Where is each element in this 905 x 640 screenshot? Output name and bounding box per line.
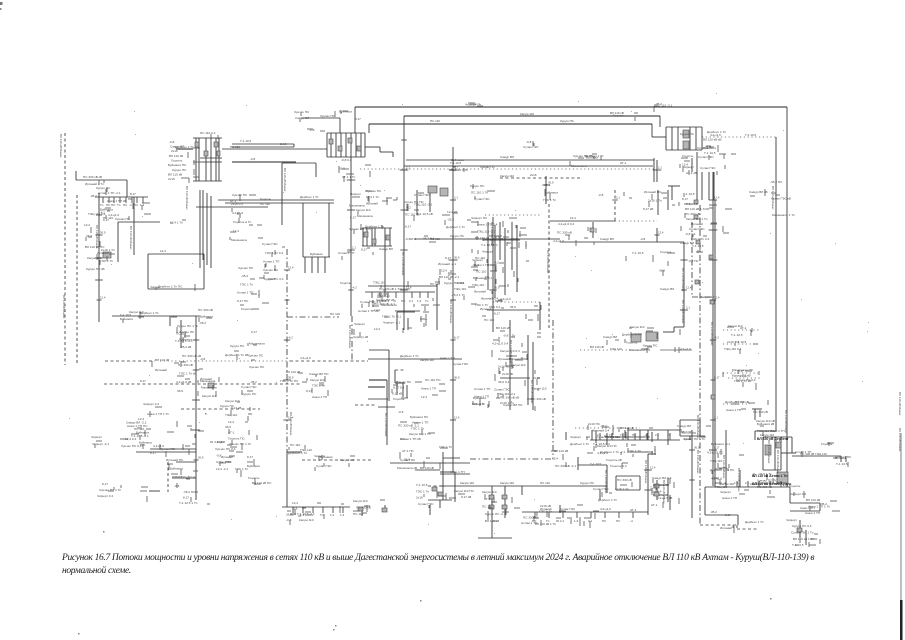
svg-text:Куруш ПС: Куруш ПС <box>680 132 695 136</box>
svg-text:Т-1 10,5: Т-1 10,5 <box>683 192 695 196</box>
svg-text:ПС 110: ПС 110 <box>353 512 364 516</box>
svg-text:ВЛ 110 кВ Ахтам-Куруш: ВЛ 110 кВ Ахтам-Куруш <box>752 482 792 486</box>
svg-text:Гоцатль 1 Тп: Гоцатль 1 Тп <box>233 220 252 224</box>
svg-text:ВЛ 110 кВ: ВЛ 110 кВ <box>590 345 604 349</box>
svg-text:12,4: 12,4 <box>714 296 720 300</box>
svg-text:Махачкала: Махачкала <box>231 238 247 242</box>
svg-text:Т-1 10,5: Т-1 10,5 <box>735 340 747 344</box>
svg-text:ВЛ 110 кВ Махач: ВЛ 110 кВ Махач <box>283 168 287 192</box>
svg-text:12,4: 12,4 <box>374 308 380 312</box>
svg-text:ВЛ 110 кВ Махач: ВЛ 110 кВ Махач <box>546 250 550 274</box>
svg-text:4,2+j1,6: 4,2+j1,6 <box>500 297 511 301</box>
svg-text:Дербент 1 Тп: Дербент 1 Тп <box>745 520 764 524</box>
svg-text:Т-1 10,5: Т-1 10,5 <box>704 151 716 155</box>
svg-text:Гоцатль: Гоцатль <box>821 442 833 446</box>
svg-text:Касум 110 1 Тп: Касум 110 1 Тп <box>409 432 431 436</box>
svg-text:Самур ВЛ ПС: Самур ВЛ ПС <box>309 372 329 376</box>
svg-text:-0,8: -0,8 <box>526 140 532 144</box>
svg-text:-35,2 ПС: -35,2 ПС <box>183 490 196 494</box>
svg-text:ВЛ 110 кВ Махач: ВЛ 110 кВ Махач <box>95 225 99 249</box>
svg-text:36,9: 36,9 <box>288 376 294 380</box>
svg-text:ВЛ 110 кВ Махач: ВЛ 110 кВ Махач <box>681 300 685 324</box>
svg-text:-0,8: -0,8 <box>640 237 646 241</box>
svg-text:8,17: 8,17 <box>140 379 146 383</box>
svg-text:Гоцатль: Гоцатль <box>248 476 260 480</box>
svg-text:12,4: 12,4 <box>228 420 234 424</box>
svg-text:Касум 110: Касум 110 <box>353 499 368 503</box>
svg-text:8,17: 8,17 <box>183 496 189 500</box>
svg-text:Анжи 1 ТП: Анжи 1 ТП <box>450 470 465 474</box>
svg-text:ВЛ 110 кВ Махач: ВЛ 110 кВ Махач <box>767 440 771 464</box>
svg-text:Гоцатль кВ: Гоцатль кВ <box>606 458 622 462</box>
svg-text:-0,8 0,4: -0,8 0,4 <box>651 490 662 494</box>
svg-text:1,3: 1,3 <box>300 513 305 517</box>
svg-text:Хунзах ПС: Хунзах ПС <box>248 353 264 357</box>
svg-text:Чирюрт: Чирюрт <box>150 285 161 289</box>
svg-text:2x16: 2x16 <box>740 374 747 378</box>
svg-text:ПС 110 кВ: ПС 110 кВ <box>405 212 420 216</box>
svg-text:Гоцатль: Гоцатль <box>682 154 694 158</box>
svg-text:АТ-1: АТ-1 <box>740 326 747 330</box>
svg-text:12,4: 12,4 <box>454 416 460 420</box>
svg-text:Буйнакск: Буйнакск <box>320 455 333 459</box>
svg-text:4,2+j1,6 0,4: 4,2+j1,6 0,4 <box>558 222 575 226</box>
svg-text:-4: -4 <box>393 299 396 303</box>
svg-text:Сулак ГЭС: Сулак ГЭС <box>418 502 434 506</box>
svg-text:Махачкала: Махачкала <box>357 214 373 218</box>
svg-text:Сулак ГЭС: Сулак ГЭС <box>523 145 539 149</box>
svg-text:Ирганай: Ирганай <box>155 368 167 372</box>
svg-text:Т-1 10,5: Т-1 10,5 <box>745 133 757 137</box>
svg-text:ГЭС 1 Тп: ГЭС 1 Тп <box>240 282 253 286</box>
svg-text:-4,2: -4,2 <box>100 211 105 215</box>
svg-text:2,1: 2,1 <box>745 481 750 485</box>
svg-text:Самур ВЛ: Самур ВЛ <box>295 116 309 120</box>
svg-text:2,1: 2,1 <box>352 246 356 250</box>
svg-text:36,9: 36,9 <box>177 389 183 393</box>
svg-text:ВЛ 110 кВ: ВЛ 110 кВ <box>620 426 634 430</box>
svg-text:АТ-1 кВ: АТ-1 кВ <box>686 171 697 175</box>
svg-text:ПС 110: ПС 110 <box>290 443 301 447</box>
svg-text:2,1: 2,1 <box>597 433 602 437</box>
svg-text:Т-1 10,5 1 Тп: Т-1 10,5 1 Тп <box>179 501 198 505</box>
svg-text:ВЛ 110 кВ: ВЛ 110 кВ <box>610 111 624 115</box>
svg-text:-35,2: -35,2 <box>199 321 206 325</box>
svg-text:АТ-1: АТ-1 <box>230 199 237 203</box>
svg-text:-4,2: -4,2 <box>406 206 411 210</box>
svg-text:ВЛ 110 кВ Махач: ВЛ 110 кВ Махач <box>722 455 726 479</box>
svg-text:Касум 110: Касум 110 <box>500 174 514 178</box>
svg-text:-0,8: -0,8 <box>250 157 256 161</box>
svg-text:12,4: 12,4 <box>421 395 427 399</box>
svg-text:ГЭС 1 Тп 0,4: ГЭС 1 Тп 0,4 <box>265 251 283 255</box>
svg-text:Гоцатль: Гоцатль <box>470 102 481 106</box>
svg-text:Ирганай -2,1: Ирганай -2,1 <box>438 262 456 266</box>
svg-text:Буйнакск: Буйнакск <box>120 317 134 321</box>
svg-text:1,3: 1,3 <box>330 513 335 517</box>
svg-text:ВЛ 110 кВ: ВЛ 110 кВ <box>496 326 510 330</box>
svg-text:8,17: 8,17 <box>454 336 460 340</box>
svg-text:2,1: 2,1 <box>588 519 593 523</box>
svg-text:ВЛ 110 кВ Махач: ВЛ 110 кВ Махач <box>776 450 780 474</box>
svg-text:Ирганай: Ирганай <box>366 202 378 206</box>
svg-text:-4: -4 <box>644 433 647 437</box>
svg-text:ВЛ 110 кВ Махач: ВЛ 110 кВ Махач <box>401 252 405 276</box>
svg-text:ВЛ 110 кВ Махач: ВЛ 110 кВ Махач <box>384 413 388 437</box>
svg-text:8,17: 8,17 <box>682 197 688 201</box>
svg-text:-35,2: -35,2 <box>600 424 607 428</box>
svg-text:Самур ВЛ 0,4: Самур ВЛ 0,4 <box>652 476 672 480</box>
svg-text:36,9: 36,9 <box>454 376 460 380</box>
svg-text:36,9: 36,9 <box>494 286 500 290</box>
svg-text:ПС 330 кВ: ПС 330 кВ <box>198 308 213 312</box>
svg-text:ГЭС 1 Тп: ГЭС 1 Тп <box>472 402 485 406</box>
svg-text:Ирганай 0,4: Ирганай 0,4 <box>481 296 498 300</box>
svg-text:ВЛ 110 кВ: ВЛ 110 кВ <box>420 466 434 470</box>
svg-text:ВЛ 110 кВ Ахтам 1 Тп: ВЛ 110 кВ Ахтам 1 Тп <box>752 474 787 478</box>
svg-text:Тп: Тп <box>100 203 104 207</box>
svg-text:8,17 ПС: 8,17 ПС <box>237 299 249 303</box>
svg-text:Сулак ГЭС: Сулак ГЭС <box>241 385 257 389</box>
svg-text:12,4: 12,4 <box>84 223 90 227</box>
svg-text:Ахтам 1 ТП: Ахтам 1 ТП <box>237 291 253 295</box>
svg-text:Ахтам 1 ТП: Ахтам 1 ТП <box>338 251 354 255</box>
svg-text:ВЛ 110 кВ Махач: ВЛ 110 кВ Махач <box>696 450 700 474</box>
svg-text:12,4: 12,4 <box>406 286 412 290</box>
svg-text:АТ-1: АТ-1 <box>410 237 417 241</box>
svg-text:Ирганай ПС: Ирганай ПС <box>166 458 184 462</box>
svg-text:2x16: 2x16 <box>684 437 691 441</box>
svg-text:Самур ВЛ: Самур ВЛ <box>680 241 694 245</box>
svg-text:8,17: 8,17 <box>738 369 744 373</box>
svg-text:8,17: 8,17 <box>247 455 253 459</box>
svg-text:-35,2 ПС: -35,2 ПС <box>770 180 783 184</box>
svg-text:ВЛ 110 кВ Махач: ВЛ 110 кВ Махач <box>737 468 741 492</box>
svg-text:Сулак ГЭС: Сулак ГЭС <box>453 362 469 366</box>
svg-text:ВЛ 110 кВ Махач: ВЛ 110 кВ Махач <box>898 392 902 416</box>
svg-text:Т-1 10,5: Т-1 10,5 <box>120 313 132 317</box>
svg-text:Касум 110: Касум 110 <box>310 378 325 382</box>
svg-text:Сулак ГЭС 1 Тп: Сулак ГЭС 1 Тп <box>791 531 814 535</box>
svg-text:Чирюрт: Чирюрт <box>472 258 483 262</box>
svg-text:Дербент 1 Тп ПС: Дербент 1 Тп ПС <box>158 285 183 289</box>
svg-text:12,4: 12,4 <box>288 416 294 420</box>
svg-text:2x16: 2x16 <box>280 142 287 146</box>
svg-text:ПС 330 кВ кВ: ПС 330 кВ кВ <box>182 354 201 358</box>
svg-text:ПС 110 0,4: ПС 110 0,4 <box>200 131 216 135</box>
svg-text:ПС 110: ПС 110 <box>540 481 550 485</box>
svg-text:Тп: Тп <box>620 433 624 437</box>
svg-text:Касум 110: Касум 110 <box>482 490 497 494</box>
svg-text:ВЛ 110 кВ Махач: ВЛ 110 кВ Махач <box>530 380 534 404</box>
svg-text:ТЭЦ 110: ТЭЦ 110 <box>610 347 622 351</box>
svg-text:4,2+j1,6: 4,2+j1,6 <box>710 133 721 137</box>
svg-text:Т-1 10,5: Т-1 10,5 <box>836 462 848 466</box>
svg-text:Буйнакск ПС: Буйнакск ПС <box>410 415 429 419</box>
svg-text:8,17: 8,17 <box>445 256 451 260</box>
svg-text:Сулак ГЭС: Сулак ГЭС <box>474 197 490 201</box>
svg-text:Касум 110: Касум 110 <box>700 295 714 299</box>
svg-text:ПС 330 кВ: ПС 330 кВ <box>800 452 814 456</box>
svg-text:8,17: 8,17 <box>405 225 411 229</box>
svg-text:Дербент 1 Тп: Дербент 1 Тп <box>140 311 159 315</box>
svg-text:Ахтам 1 ТП -2,1: Ахтам 1 ТП -2,1 <box>98 191 121 195</box>
svg-text:-0,8 0,4: -0,8 0,4 <box>377 292 388 296</box>
svg-text:ПС 110: ПС 110 <box>430 237 440 241</box>
svg-text:Куруш ПС ПС: Куруш ПС ПС <box>404 200 424 204</box>
svg-text:Т-1 10,5 ПС: Т-1 10,5 ПС <box>481 243 499 247</box>
svg-text:Касум 110: Касум 110 <box>520 112 534 116</box>
svg-text:ПС 330 кВ 1 Тп: ПС 330 кВ 1 Тп <box>379 287 401 291</box>
svg-text:Самур ВЛ: Самур ВЛ <box>500 155 514 159</box>
svg-text:Касум 110: Касум 110 <box>420 358 434 362</box>
svg-text:36,9: 36,9 <box>225 425 231 429</box>
svg-text:2x16: 2x16 <box>168 177 175 181</box>
svg-text:-0,8: -0,8 <box>598 193 604 197</box>
svg-text:-35,2 1 Тп: -35,2 1 Тп <box>451 293 465 297</box>
svg-text:12,4: 12,4 <box>288 266 294 270</box>
svg-text:Махачкала: Махачкала <box>349 204 365 208</box>
svg-text:Анжи 1 ТП: Анжи 1 ТП <box>805 511 820 515</box>
svg-text:Самур ВЛ: Самур ВЛ <box>603 335 617 339</box>
svg-text:-35,2: -35,2 <box>710 510 717 514</box>
svg-text:ПС 110 ПС: ПС 110 ПС <box>425 378 441 382</box>
svg-text:ТЭЦ 110: ТЭЦ 110 <box>454 287 466 291</box>
svg-text:1,3: 1,3 <box>417 299 422 303</box>
svg-text:4,2+j1,6: 4,2+j1,6 <box>680 347 691 351</box>
svg-text:Самур ВЛ: Самур ВЛ <box>660 287 674 291</box>
svg-text:12,4: 12,4 <box>374 327 380 331</box>
svg-text:36,9: 36,9 <box>694 446 700 450</box>
svg-text:ВЛ 110 кВ Махач: ВЛ 110 кВ Махач <box>490 222 494 246</box>
svg-text:Чирюрт: Чирюрт <box>354 322 365 326</box>
svg-text:1,3: 1,3 <box>369 299 374 303</box>
svg-text:Анжи 1 ТП: Анжи 1 ТП <box>440 356 455 360</box>
svg-text:Гоцатль: Гоцатль <box>241 307 253 311</box>
svg-text:-35,2: -35,2 <box>90 194 97 198</box>
svg-text:Самур ВЛ: Самур ВЛ <box>379 247 393 251</box>
svg-text:ВЛ 110 кВ кВ: ВЛ 110 кВ кВ <box>703 138 721 142</box>
svg-text:8,17: 8,17 <box>251 330 257 334</box>
svg-text:36,9: 36,9 <box>339 167 345 171</box>
svg-text:Т-1 10,5: Т-1 10,5 <box>240 139 252 143</box>
svg-text:Хунзах ПС: Хунзах ПС <box>249 365 265 369</box>
svg-text:-35,2: -35,2 <box>250 380 257 384</box>
svg-text:ПС 110: ПС 110 <box>484 318 495 322</box>
svg-text:ВЛ 110 кВ Махач: ВЛ 110 кВ Махач <box>59 134 63 158</box>
svg-text:ВЛ 110 кВ Махач: ВЛ 110 кВ Махач <box>348 325 352 349</box>
svg-text:8,17: 8,17 <box>102 482 108 486</box>
svg-text:ПС 330 кВ: ПС 330 кВ <box>178 363 193 367</box>
svg-text:12,4: 12,4 <box>441 269 447 273</box>
svg-text:Куруш ПС: Куруш ПС <box>560 119 575 123</box>
svg-text:ТЭЦ 110: ТЭЦ 110 <box>300 448 312 452</box>
svg-text:2,1: 2,1 <box>454 196 458 200</box>
svg-text:Куруш ПС: Куруш ПС <box>230 344 245 348</box>
svg-text:36,9: 36,9 <box>659 269 665 273</box>
svg-text:-0,8 0,4: -0,8 0,4 <box>685 232 696 236</box>
svg-text:Махачкала: Махачкала <box>381 303 397 307</box>
svg-text:Сулак ГЭС: Сулак ГЭС <box>414 193 430 197</box>
svg-text:-0,8 ПС: -0,8 ПС <box>688 259 699 263</box>
svg-text:-4: -4 <box>129 203 132 207</box>
svg-text:-4,2: -4,2 <box>352 286 357 290</box>
svg-text:4,2+j1,6 0,4: 4,2+j1,6 0,4 <box>492 341 509 345</box>
svg-text:-0,8 0,4: -0,8 0,4 <box>341 158 352 162</box>
svg-text:Чирюрт: Чирюрт <box>720 490 731 494</box>
svg-text:ПС 110 1 Тп: ПС 110 1 Тп <box>471 191 488 195</box>
svg-text:ВЛ 110 кВ Махач: ВЛ 110 кВ Махач <box>129 226 133 250</box>
svg-text:ВЛ 110 кВ Махач: ВЛ 110 кВ Махач <box>696 415 700 439</box>
svg-text:Куруш ПС: Куруш ПС <box>242 392 257 396</box>
svg-text:Дербент 1 Тп: Дербент 1 Тп <box>570 442 589 446</box>
svg-text:2,1: 2,1 <box>616 196 620 200</box>
svg-text:-4: -4 <box>630 519 633 523</box>
svg-text:8,17: 8,17 <box>725 513 731 517</box>
svg-text:Анжи 1 ТП: Анжи 1 ТП <box>421 387 436 391</box>
svg-text:ВЛ 110 кВ Махач: ВЛ 110 кВ Махач <box>710 322 714 346</box>
svg-text:Чирюрт: Чирюрт <box>350 192 361 196</box>
svg-text:ТЭЦ 110 -2,1: ТЭЦ 110 -2,1 <box>497 392 516 396</box>
svg-text:Дербент 1 Тп: Дербент 1 Тп <box>622 333 641 337</box>
svg-text:2x16 1 Тп: 2x16 1 Тп <box>648 199 662 203</box>
svg-text:Чирюрт: Чирюрт <box>786 518 797 522</box>
svg-text:36,9 0,4: 36,9 0,4 <box>498 380 509 384</box>
svg-text:ГЭС 1 Тп -2,1: ГЭС 1 Тп -2,1 <box>382 314 401 318</box>
svg-text:Касум 110: Касум 110 <box>500 481 514 485</box>
svg-text:ГЭС 1 Тп: ГЭС 1 Тп <box>312 384 325 388</box>
svg-text:12,4: 12,4 <box>650 466 656 470</box>
svg-text:Касум 110: Касум 110 <box>299 518 314 522</box>
svg-text:Сулак ГЭС: Сулак ГЭС <box>560 507 576 511</box>
svg-text:-35,2: -35,2 <box>447 218 454 222</box>
svg-text:Хунзах ПС: Хунзах ПС <box>396 380 412 384</box>
svg-text:2,1: 2,1 <box>409 299 414 303</box>
svg-text:АТ-1 ПС: АТ-1 ПС <box>402 449 415 453</box>
svg-text:Т-1 10,5: Т-1 10,5 <box>590 462 602 466</box>
svg-text:2,1: 2,1 <box>686 306 690 310</box>
svg-text:Тп: Тп <box>546 519 550 523</box>
svg-text:Куруш ПС 0,4: Куруш ПС 0,4 <box>736 378 756 382</box>
svg-text:Хунзах ПС 1 Тп: Хунзах ПС 1 Тп <box>349 227 371 231</box>
svg-text:ПС 110: ПС 110 <box>230 145 240 149</box>
svg-text:ПС 330 кВ: ПС 330 кВ <box>617 478 632 482</box>
svg-text:1,3: 1,3 <box>140 203 145 207</box>
svg-text:2,1: 2,1 <box>655 433 660 437</box>
svg-text:Дербент 1 Тп: Дербент 1 Тп <box>446 225 465 229</box>
svg-text:-35,2: -35,2 <box>510 237 517 241</box>
svg-text:Дербент 1 Тп: Дербент 1 Тп <box>300 195 319 199</box>
svg-text:8,17 кВ: 8,17 кВ <box>461 495 471 499</box>
svg-text:Ахтам 1 ТП: Ахтам 1 ТП <box>263 260 279 264</box>
svg-text:1,3: 1,3 <box>712 481 717 485</box>
svg-text:Анжи 1 ТП: Анжи 1 ТП <box>726 408 741 412</box>
svg-text:36,9: 36,9 <box>548 181 554 185</box>
svg-text:Сулак ГЭС: Сулак ГЭС <box>698 155 714 159</box>
svg-text:Касум 110: Касум 110 <box>720 482 734 486</box>
svg-text:Анжи 1 ТП: Анжи 1 ТП <box>474 263 489 267</box>
svg-text:Тп: Тп <box>290 513 294 517</box>
svg-text:Куруш ПС: Куруш ПС <box>172 168 187 172</box>
svg-text:Гоцатль: Гоцатль <box>171 159 183 163</box>
svg-text:Гоцатль: Гоцатль <box>260 197 271 201</box>
svg-text:Сулак ГЭС: Сулак ГЭС <box>262 242 278 246</box>
svg-text:Хунзах ПС: Хунзах ПС <box>238 266 254 270</box>
svg-text:2,1: 2,1 <box>454 166 458 170</box>
svg-text:Анжи 1 ТП: Анжи 1 ТП <box>800 506 815 510</box>
svg-text:Дербент 1 Тп: Дербент 1 Тп <box>598 498 617 502</box>
svg-text:Гоцатль ПС: Гоцатль ПС <box>228 436 245 440</box>
svg-text:ГЭС 1 Тп: ГЭС 1 Тп <box>628 449 641 453</box>
svg-text:8,17: 8,17 <box>714 376 720 380</box>
svg-text:Хунзах ПС: Хунзах ПС <box>480 165 496 169</box>
svg-text:-35,2: -35,2 <box>680 430 687 434</box>
svg-text:Тп: Тп <box>425 299 429 303</box>
svg-text:Куруш ПС: Куруш ПС <box>220 404 235 408</box>
svg-text:Ирганай 0,4: Ирганай 0,4 <box>592 429 609 433</box>
svg-text:ТЭЦ 110: ТЭЦ 110 <box>815 452 827 456</box>
svg-text:Тп: Тп <box>377 299 381 303</box>
svg-text:2x16: 2x16 <box>530 173 537 177</box>
svg-text:Касум 110 ПС: Касум 110 ПС <box>597 444 618 448</box>
svg-text:АТ-1: АТ-1 <box>620 161 627 165</box>
svg-text:Куруш ПС: Куруш ПС <box>96 186 111 190</box>
svg-text:ВЛ 110 кВ: ВЛ 110 кВ <box>806 498 820 502</box>
svg-text:Касум 110 1 Тп: Касум 110 1 Тп <box>686 217 708 221</box>
svg-text:Чирюрт 0,4: Чирюрт 0,4 <box>97 494 113 498</box>
svg-text:ВЛ 110 кВ Махач: ВЛ 110 кВ Махач <box>898 428 902 452</box>
svg-text:Сулак ГЭС: Сулак ГЭС <box>689 227 705 231</box>
svg-text:Буйнакск: Буйнакск <box>170 467 184 471</box>
svg-text:ГЭС 1 Тп: ГЭС 1 Тп <box>416 489 429 493</box>
svg-text:8,17 кВ: 8,17 кВ <box>392 391 402 395</box>
svg-text:-35,2: -35,2 <box>655 102 662 106</box>
svg-text:Ахтам 1 ТП: Ахтам 1 ТП <box>474 387 490 391</box>
svg-text:2,1: 2,1 <box>406 166 410 170</box>
svg-text:Буйнакск: Буйнакск <box>545 191 559 195</box>
svg-text:Ирганай ПС: Ирганай ПС <box>644 190 662 194</box>
svg-text:Хунзах ПС 0,4: Хунзах ПС 0,4 <box>121 444 142 448</box>
svg-text:ТЭЦ 110 0,4: ТЭЦ 110 0,4 <box>724 347 742 351</box>
svg-text:1,3: 1,3 <box>385 299 390 303</box>
svg-text:12,4: 12,4 <box>100 296 106 300</box>
svg-text:12,4: 12,4 <box>714 196 720 200</box>
svg-text:-0,8: -0,8 <box>286 518 292 522</box>
svg-text:Анжи 1 ТП: Анжи 1 ТП <box>312 395 327 399</box>
svg-text:12,4: 12,4 <box>160 249 166 253</box>
svg-text:ПС 330 кВ: ПС 330 кВ <box>557 231 572 235</box>
svg-text:Дербент 1 Тп: Дербент 1 Тп <box>175 145 194 149</box>
svg-text:Дербент 1 Тп: Дербент 1 Тп <box>585 154 604 158</box>
svg-text:36,9: 36,9 <box>454 256 460 260</box>
svg-text:Самур ВЛ: Самур ВЛ <box>677 424 691 428</box>
svg-text:Т-1 10,5: Т-1 10,5 <box>450 161 462 165</box>
svg-text:Махачкала: Махачкала <box>571 164 587 168</box>
svg-text:36,9: 36,9 <box>494 236 500 240</box>
svg-text:2,1: 2,1 <box>650 486 654 490</box>
svg-text:Куруш ПС 0,4: Куруш ПС 0,4 <box>792 524 812 528</box>
svg-text:-4,2: -4,2 <box>714 336 719 340</box>
svg-text:Касум 110: Касум 110 <box>340 458 354 462</box>
svg-text:12,4 -2,1: 12,4 -2,1 <box>216 467 228 471</box>
svg-text:Сулак ГЭС: Сулак ГЭС <box>700 166 716 170</box>
svg-text:12,4: 12,4 <box>570 216 576 220</box>
svg-text:12,4: 12,4 <box>552 457 558 461</box>
svg-text:Анжи 1 ТП: Анжи 1 ТП <box>722 496 737 500</box>
svg-text:ВЛ 330 кВ Дербент: ВЛ 330 кВ Дербент <box>757 437 789 441</box>
svg-text:8,17: 8,17 <box>350 215 356 219</box>
svg-text:4,2+j1,6 кВ: 4,2+j1,6 кВ <box>176 380 191 384</box>
